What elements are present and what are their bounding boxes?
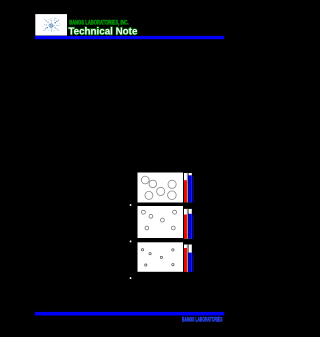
- figure 3 red tube: [184, 244, 188, 273]
- figure 3 caption speck: [130, 277, 132, 279]
- figure 3 gap: [186, 244, 189, 272]
- figure 1 blue tube: [188, 172, 192, 202]
- figure 3 thin blue line: [192, 253, 195, 273]
- svg-text:BANGS LABORATORIES: BANGS LABORATORIES: [182, 317, 223, 324]
- figure 2 gap: [186, 209, 189, 239]
- figure 2 box: [137, 206, 184, 239]
- bottom blue rule: [35, 312, 224, 316]
- figure 2 caption speck: [130, 241, 132, 243]
- svg-text:Technical Note: Technical Note: [68, 26, 137, 38]
- figure 1 thin blue line: [192, 177, 195, 203]
- top blue rule: [35, 36, 224, 39]
- figure 2 blue tube: [188, 208, 192, 239]
- figure 3 blue tube: [188, 244, 192, 273]
- logo box: [35, 14, 67, 35]
- figure 2 circles (medium particles): [141, 210, 176, 230]
- figure 1 red tube: [184, 172, 188, 202]
- figure 1 box: [137, 172, 184, 203]
- figure 2 red tube: [184, 208, 188, 239]
- figure 3 circles (small particles): [141, 249, 174, 266]
- figure 3 box: [137, 242, 184, 272]
- figure 1 circles (large particles): [141, 176, 176, 199]
- figure 1 gap: [186, 173, 189, 203]
- figure 2 thin blue line: [192, 215, 195, 239]
- figure 1 caption speck: [130, 204, 132, 206]
